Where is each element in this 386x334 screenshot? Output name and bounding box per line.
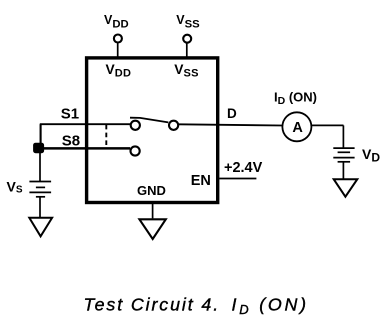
svg-text:VSS: VSS — [174, 62, 198, 79]
wire ammeter to VD — [311, 124, 343, 126]
svg-text:A: A — [292, 120, 303, 136]
svg-text:VSS: VSS — [176, 13, 200, 31]
svg-text:S8: S8 — [62, 132, 80, 149]
svg-text:EN: EN — [191, 173, 211, 189]
wire D — [179, 124, 283, 125]
ground (VD) — [334, 179, 358, 197]
battery VS — [29, 182, 51, 197]
ground (VS) — [29, 218, 52, 237]
wire VDD pin — [117, 43, 119, 58]
svg-text:VS: VS — [7, 178, 23, 195]
ground (GND) — [139, 219, 165, 239]
svg-text:+2.4V: +2.4V — [224, 160, 263, 176]
wire EN — [219, 178, 256, 180]
svg-text:GND: GND — [137, 183, 166, 198]
wire GND — [152, 203, 154, 218]
wire VD battery to ground — [342, 162, 344, 179]
wire S1 — [40, 123, 131, 125]
switch lever — [130, 118, 168, 123]
svg-text:Test Circuit 4.: Test Circuit 4. — [84, 295, 221, 315]
wire S8 — [39, 147, 131, 150]
terminal VSS — [183, 35, 191, 43]
switch common circle — [169, 121, 178, 130]
wire VSS pin — [186, 43, 188, 58]
svg-text:ID (ON): ID (ON) — [274, 90, 317, 108]
switch pole S8 circle — [131, 146, 140, 155]
switch pole S1 circle — [131, 121, 140, 130]
svg-text:S1: S1 — [61, 105, 79, 122]
svg-text:D: D — [227, 106, 237, 121]
svg-text:ID (ON): ID (ON) — [232, 295, 309, 318]
ammeter A1 — [282, 112, 311, 141]
svg-text:VDD: VDD — [106, 62, 132, 79]
wire down to VD battery — [342, 125, 344, 148]
junction node — [33, 143, 44, 154]
battery VD — [333, 148, 354, 162]
terminal VDD — [114, 35, 122, 43]
dashed link — [105, 125, 107, 148]
wire VS junction to battery — [39, 151, 41, 182]
svg-text:VDD: VDD — [104, 13, 129, 31]
svg-text:VD: VD — [362, 146, 380, 164]
wire VS battery to ground — [39, 197, 41, 217]
DUT box U1 — [87, 58, 218, 203]
wire left vertical — [40, 124, 42, 148]
